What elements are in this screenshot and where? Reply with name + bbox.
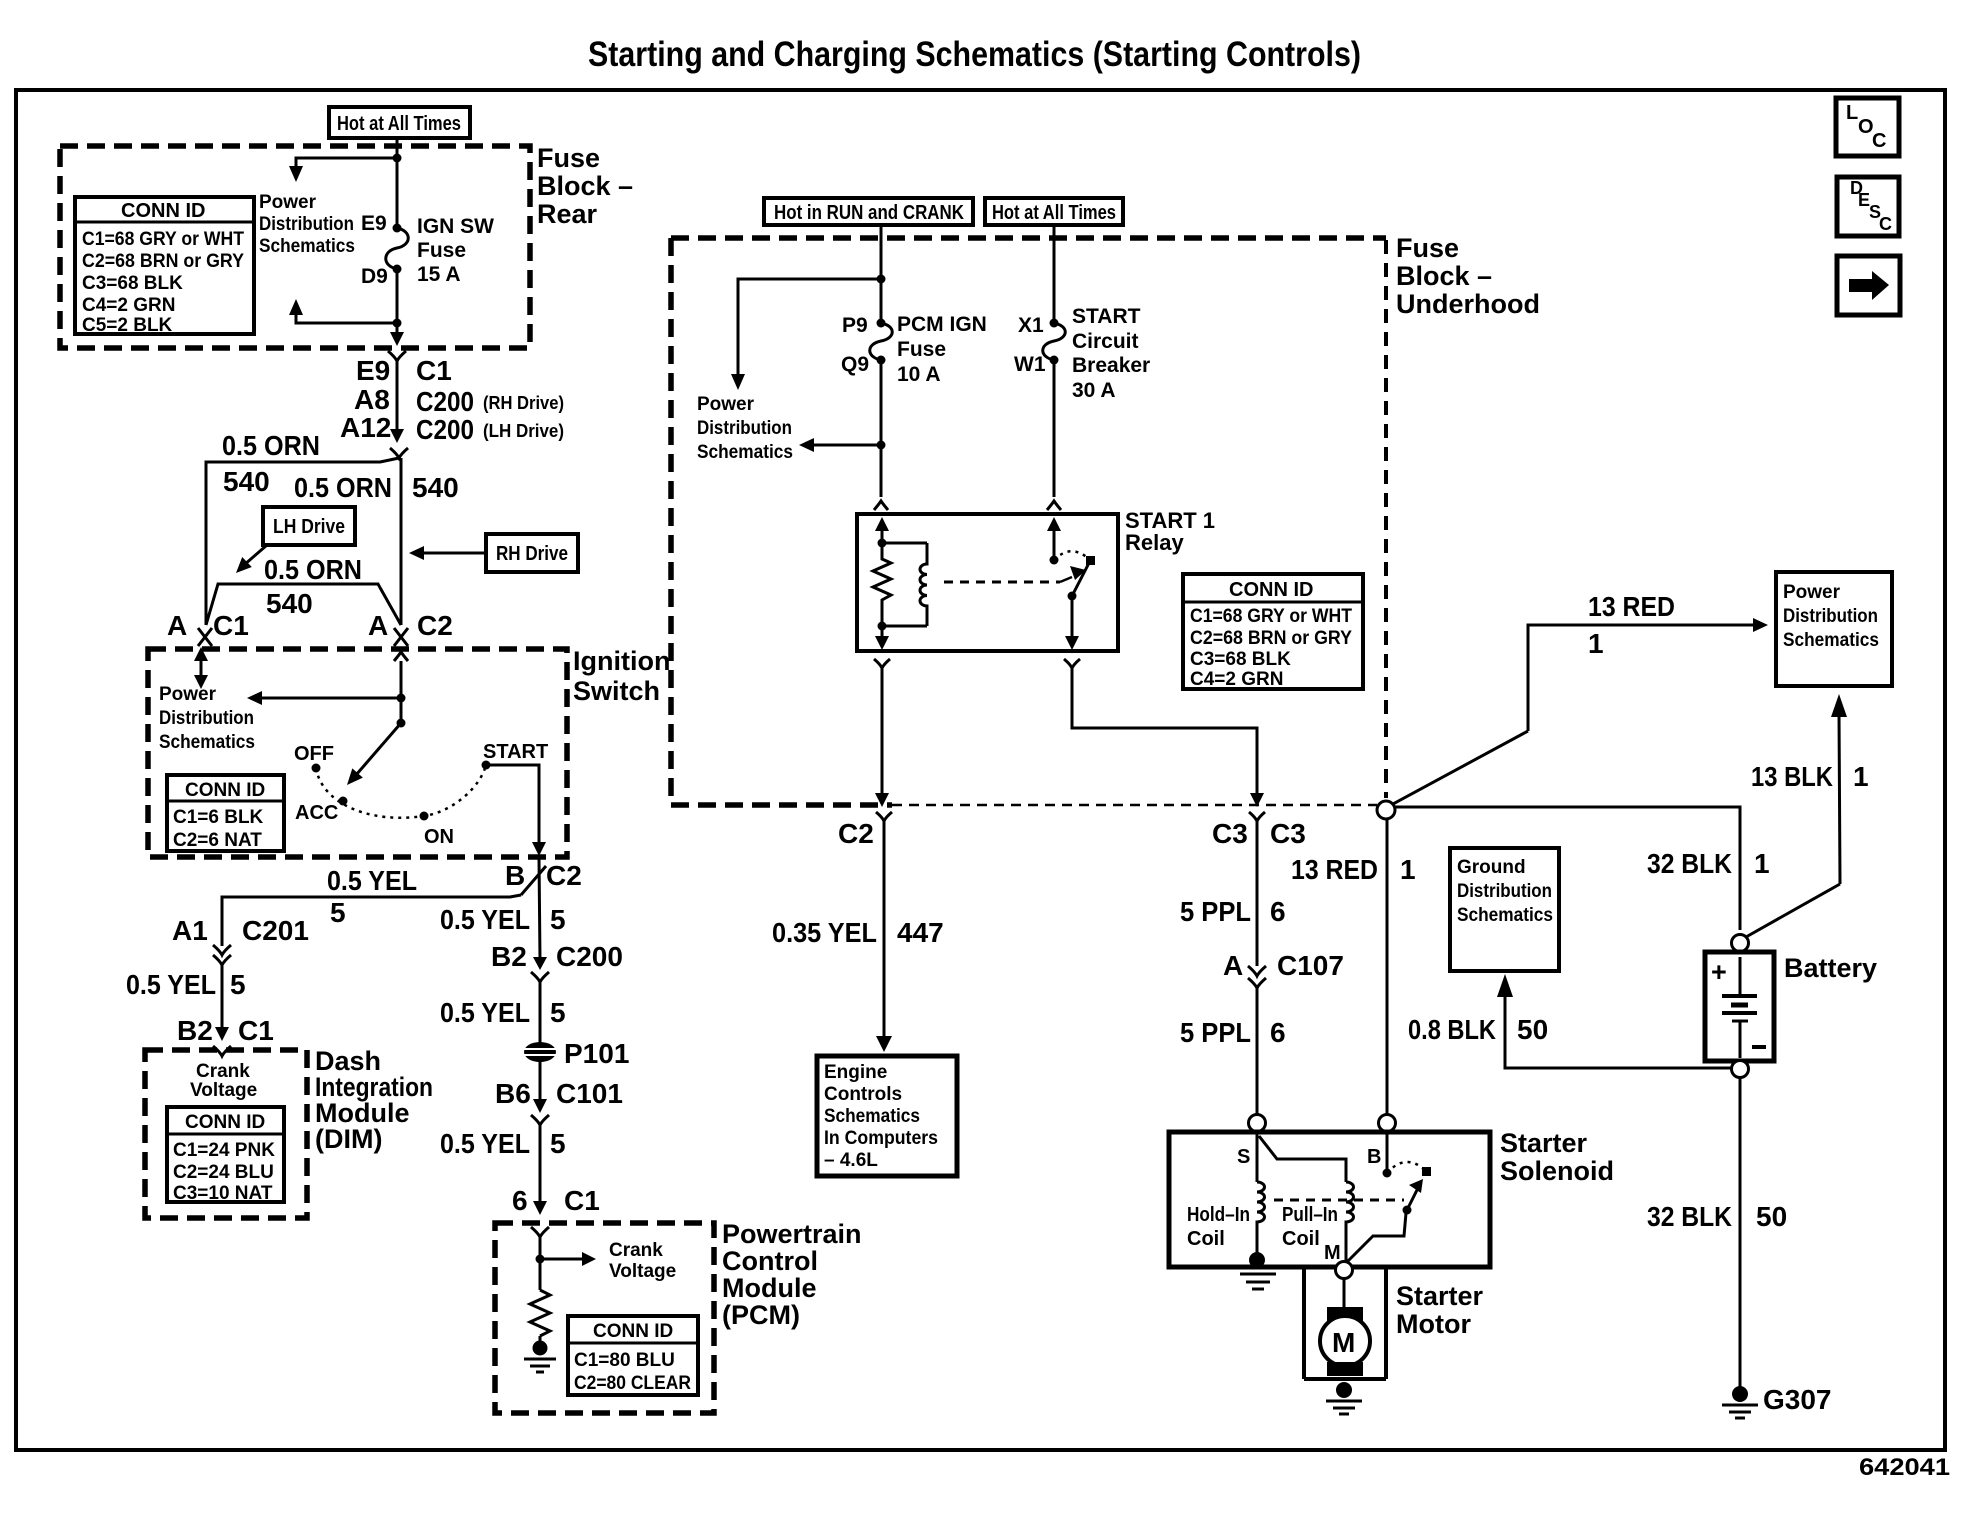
labels 0.5 YEL 5 (to PCM) bbox=[440, 1128, 566, 1159]
wire branch to power distribution (upper arrow) bbox=[296, 158, 397, 168]
label: Hold-In Coil bbox=[1187, 1204, 1250, 1250]
wire to C200 bbox=[396, 361, 399, 430]
wire node to battery positive bbox=[1395, 807, 1740, 930]
solenoid blade and plunger arrow bbox=[1347, 1179, 1423, 1262]
svg-text:C200: C200 bbox=[416, 386, 474, 417]
svg-text:Distribution: Distribution bbox=[1457, 881, 1552, 902]
svg-text:C3: C3 bbox=[1212, 818, 1248, 849]
CONN ID table (DIM) bbox=[167, 1107, 284, 1204]
svg-text:C3=68 BLK: C3=68 BLK bbox=[82, 273, 183, 294]
wire relay output to C3 bbox=[1072, 668, 1264, 807]
wire 13 RED to power distribution box bbox=[1528, 618, 1768, 731]
svg-text:0.5 YEL: 0.5 YEL bbox=[327, 865, 417, 896]
svg-text:C2: C2 bbox=[417, 610, 453, 641]
labels C3 C3 bbox=[1212, 818, 1306, 849]
svg-text:+: + bbox=[1711, 957, 1727, 987]
svg-text:Battery: Battery bbox=[1784, 953, 1877, 983]
wire 13 BLK battery to power distribution box bbox=[1746, 694, 1847, 937]
starter solenoid box bbox=[1169, 1132, 1490, 1267]
label box: RH Drive bbox=[486, 534, 578, 572]
connector chevron C3 bbox=[1249, 812, 1265, 821]
svg-text:Voltage: Voltage bbox=[190, 1080, 257, 1101]
svg-text:E9: E9 bbox=[356, 355, 390, 386]
svg-text:1: 1 bbox=[1853, 761, 1869, 792]
svg-text:Breaker: Breaker bbox=[1072, 354, 1150, 377]
switch position dots arc bbox=[316, 765, 486, 818]
connector labels A8 C200 (RH Drive) bbox=[354, 384, 564, 417]
svg-text:M: M bbox=[1332, 1327, 1355, 1358]
svg-text:CONN ID: CONN ID bbox=[185, 1112, 265, 1133]
wire into switch bbox=[400, 661, 403, 723]
svg-text:Hot at All Times: Hot at All Times bbox=[337, 113, 461, 135]
svg-text:CONN ID: CONN ID bbox=[593, 1321, 673, 1342]
svg-text:S: S bbox=[1237, 1146, 1250, 1168]
svg-text:Schematics: Schematics bbox=[1783, 630, 1879, 651]
hold-in coil bbox=[1257, 1182, 1265, 1258]
svg-text:C201: C201 bbox=[242, 915, 309, 946]
svg-text:447: 447 bbox=[897, 917, 944, 948]
svg-text:C107: C107 bbox=[1277, 950, 1344, 981]
svg-text:Switch: Switch bbox=[573, 676, 660, 706]
wire breaker to relay bbox=[1053, 360, 1056, 497]
svg-text:C1=24 PNK: C1=24 PNK bbox=[173, 1140, 275, 1161]
starter motor frame bbox=[1304, 1267, 1386, 1379]
labels B2 C200 bbox=[491, 941, 623, 972]
connector B C2 (X symbol) bbox=[521, 866, 546, 895]
wire B/C2 down to B2/C200 bbox=[539, 858, 540, 960]
fuse block underhood dashed box bbox=[671, 238, 1386, 805]
starter motor bbox=[1320, 1307, 1370, 1376]
connector chevron below relay (right) bbox=[1064, 659, 1080, 668]
connector B6/C101 chevron bbox=[531, 1115, 549, 1125]
svg-text:6: 6 bbox=[512, 1185, 528, 1216]
label: Starter Motor bbox=[1396, 1281, 1484, 1339]
svg-text:Motor: Motor bbox=[1396, 1309, 1471, 1339]
svg-text:Ignition: Ignition bbox=[573, 646, 670, 676]
relay output pin bottom bbox=[1065, 596, 1079, 650]
wire fuse to relay bbox=[880, 360, 883, 497]
node: hold-in coil ground junction bbox=[1249, 1252, 1265, 1268]
svg-text:Controls: Controls bbox=[824, 1084, 902, 1105]
wire A1/C201 to B2/C1 bbox=[221, 965, 224, 1028]
svg-text:X1: X1 bbox=[1018, 314, 1044, 337]
labels A1 C201 bbox=[172, 915, 309, 946]
svg-text:C3=10 NAT: C3=10 NAT bbox=[173, 1183, 273, 1204]
label: Ignition Switch bbox=[573, 646, 670, 706]
svg-text:1: 1 bbox=[1400, 854, 1416, 885]
labels A C1 bbox=[167, 610, 249, 641]
svg-text:0.5 YEL: 0.5 YEL bbox=[440, 997, 530, 1028]
svg-text:Power: Power bbox=[1783, 582, 1841, 603]
connector chevron above relay (left) bbox=[874, 501, 888, 510]
wire: main vertical to A C2 bbox=[400, 458, 403, 625]
DESC nav box bbox=[1837, 177, 1899, 236]
svg-text:Fuse: Fuse bbox=[417, 239, 466, 262]
svg-text:Schematics: Schematics bbox=[824, 1106, 920, 1127]
svg-text:C5=2 BLK: C5=2 BLK bbox=[82, 315, 173, 336]
svg-text:Power: Power bbox=[259, 192, 317, 213]
fuse block rear dashed box bbox=[60, 146, 530, 348]
node OFF bbox=[312, 764, 321, 773]
wire B/C2 to A1/C201 bbox=[222, 895, 521, 946]
svg-text:Hold–In: Hold–In bbox=[1187, 1204, 1250, 1226]
wire arrow from fuse output to power distribution bbox=[799, 438, 881, 452]
svg-text:15 A: 15 A bbox=[417, 263, 461, 286]
svg-text:540: 540 bbox=[223, 466, 270, 497]
svg-text:C1=6 BLK: C1=6 BLK bbox=[173, 807, 264, 828]
ignition switch dashed box bbox=[148, 649, 567, 857]
DIM dashed box bbox=[145, 1050, 307, 1218]
svg-text:Schematics: Schematics bbox=[159, 732, 255, 753]
relay coil-to-contact dashed link bbox=[944, 566, 1086, 582]
svg-text:Starting and Charging Schemati: Starting and Charging Schematics (Starti… bbox=[588, 35, 1361, 74]
connector A/C107 chevrons bbox=[1248, 966, 1266, 988]
wire C3 to solenoid S bbox=[1256, 821, 1259, 966]
wire S to pull-in coil bbox=[1259, 1136, 1346, 1182]
text: Crank Voltage (PCM) bbox=[609, 1240, 676, 1282]
svg-text:Crank: Crank bbox=[196, 1061, 250, 1082]
svg-text:Underhood: Underhood bbox=[1396, 289, 1540, 319]
relay switch blade bbox=[1072, 561, 1090, 596]
svg-text:Power: Power bbox=[159, 684, 217, 705]
svg-text:Schematics: Schematics bbox=[697, 442, 793, 463]
svg-text:5: 5 bbox=[550, 997, 566, 1028]
svg-text:Starter: Starter bbox=[1500, 1128, 1588, 1158]
svg-text:Block –: Block – bbox=[537, 171, 633, 201]
svg-text:5: 5 bbox=[230, 969, 246, 1000]
svg-text:13 RED: 13 RED bbox=[1291, 854, 1378, 885]
svg-text:32 BLK: 32 BLK bbox=[1647, 848, 1732, 879]
node: switch pivot bbox=[397, 719, 406, 728]
label: START 1 Relay bbox=[1125, 508, 1215, 555]
wire node to 13 RED riser bbox=[1393, 731, 1528, 804]
svg-text:C1: C1 bbox=[564, 1185, 600, 1216]
wire into PCM bbox=[539, 1237, 542, 1290]
labels 5 PPL 6 (upper) bbox=[1180, 896, 1286, 927]
connector chevron below A C2 bbox=[394, 652, 408, 661]
label: Dash Integration Module (DIM) bbox=[315, 1046, 433, 1154]
node: movable contact top bbox=[1086, 556, 1095, 565]
svg-text:C2: C2 bbox=[838, 818, 874, 849]
svg-text:6: 6 bbox=[1270, 1017, 1286, 1048]
svg-text:Distribution: Distribution bbox=[259, 214, 354, 235]
svg-text:C200: C200 bbox=[556, 941, 623, 972]
svg-text:PCM IGN: PCM IGN bbox=[897, 313, 987, 336]
svg-text:5: 5 bbox=[550, 1128, 566, 1159]
connector A1/C201 chevrons bbox=[213, 945, 231, 965]
svg-text:C1: C1 bbox=[416, 355, 452, 386]
svg-text:Circuit: Circuit bbox=[1072, 330, 1139, 353]
svg-text:P9: P9 bbox=[842, 314, 868, 337]
node: junction at feed bbox=[397, 694, 406, 703]
svg-text:C1: C1 bbox=[213, 610, 249, 641]
svg-text:13 RED: 13 RED bbox=[1588, 591, 1675, 622]
svg-text:Block –: Block – bbox=[1396, 261, 1492, 291]
labels 5 PPL 6 (lower) bbox=[1180, 1017, 1286, 1048]
svg-text:A: A bbox=[368, 610, 388, 641]
arrow nav box bbox=[1837, 256, 1900, 315]
svg-text:C1=68 GRY or WHT: C1=68 GRY or WHT bbox=[1190, 606, 1352, 627]
node: splice ring at fuse block corner bbox=[1377, 801, 1395, 819]
fuse PCM IGN 10A symbol bbox=[870, 319, 893, 365]
node: coil top junction bbox=[878, 539, 887, 548]
relay coil bbox=[882, 543, 927, 626]
node: junction dot lower bbox=[393, 319, 402, 328]
svg-text:B6: B6 bbox=[495, 1078, 531, 1109]
relay contact pin top bbox=[1047, 517, 1061, 560]
svg-text:Voltage: Voltage bbox=[609, 1261, 676, 1282]
terminal M ring bbox=[1336, 1262, 1353, 1279]
connector chevron into PCM bbox=[531, 1227, 549, 1237]
arrow to Crank Voltage bbox=[540, 1252, 596, 1266]
svg-text:– 4.6L: – 4.6L bbox=[824, 1150, 878, 1171]
svg-text:C2=6 NAT: C2=6 NAT bbox=[173, 830, 262, 851]
labels 13 RED 1 (to B) bbox=[1291, 854, 1416, 885]
wire node to B terminal bbox=[1386, 819, 1389, 1114]
wire C101 to PCM bbox=[539, 1125, 542, 1202]
label: START Circuit Breaker 30 A bbox=[1072, 305, 1150, 402]
wire C2 to engine controls bbox=[876, 821, 892, 1052]
wire from Hot at All Times into fuse bbox=[396, 138, 399, 228]
svg-text:0.5 ORN: 0.5 ORN bbox=[294, 472, 392, 503]
fuse IGN SW 15A symbol bbox=[386, 224, 409, 274]
svg-text:Crank: Crank bbox=[609, 1240, 663, 1261]
labels 0.35 YEL 447 bbox=[772, 917, 944, 948]
svg-text:0.5 ORN: 0.5 ORN bbox=[264, 554, 362, 585]
wire from START out of switch bbox=[486, 765, 546, 856]
svg-text:Module: Module bbox=[722, 1273, 817, 1303]
wire arrow to power distribution schematics bbox=[247, 691, 401, 705]
svg-text:START: START bbox=[1072, 305, 1141, 328]
svg-text:B: B bbox=[505, 860, 525, 891]
label box: Hot in RUN and CRANK bbox=[764, 198, 973, 225]
wire: 0.5 ORN 540 LH-drive crossover bbox=[206, 584, 401, 625]
node: blade pivot bbox=[1068, 592, 1077, 601]
wire leaving fuse block with arrow bbox=[390, 332, 404, 346]
node: movable contact bbox=[1422, 1167, 1431, 1176]
labels 0.5 YEL 5 (upper right run) bbox=[440, 904, 566, 935]
wire to P101 bbox=[539, 982, 542, 1043]
svg-text:5: 5 bbox=[550, 904, 566, 935]
svg-text:Solenoid: Solenoid bbox=[1500, 1156, 1614, 1186]
ground (starter motor) bbox=[1326, 1382, 1362, 1414]
wire: 0.5 ORN 540 to A C1 bbox=[206, 458, 399, 625]
svg-text:A: A bbox=[1223, 950, 1243, 981]
svg-text:(RH Drive): (RH Drive) bbox=[483, 393, 564, 413]
svg-text:C200: C200 bbox=[416, 414, 474, 445]
wire battery negative to G307 bbox=[1739, 1078, 1742, 1388]
wire M terminal to motor bbox=[1343, 1279, 1346, 1308]
svg-text:C: C bbox=[1879, 214, 1892, 234]
labels A C2 bbox=[368, 610, 453, 641]
svg-text:C1=80 BLU: C1=80 BLU bbox=[574, 1350, 675, 1371]
svg-text:L: L bbox=[1846, 102, 1858, 124]
pull-in coil bbox=[1346, 1182, 1354, 1262]
terminal S ring bbox=[1249, 1115, 1266, 1132]
text: Power Distribution Schematics bbox=[259, 192, 355, 257]
svg-text:5: 5 bbox=[330, 897, 346, 928]
svg-text:Q9: Q9 bbox=[841, 353, 869, 376]
svg-text:D9: D9 bbox=[361, 265, 388, 288]
svg-text:Fuse: Fuse bbox=[1396, 233, 1459, 263]
svg-text:C: C bbox=[1872, 130, 1886, 152]
svg-text:B2: B2 bbox=[177, 1015, 213, 1046]
svg-text:1: 1 bbox=[1754, 848, 1770, 879]
text: Crank Voltage bbox=[190, 1061, 257, 1101]
svg-text:0.35 YEL: 0.35 YEL bbox=[772, 917, 877, 948]
svg-text:C101: C101 bbox=[556, 1078, 623, 1109]
svg-text:ON: ON bbox=[424, 826, 454, 848]
svg-text:Hot at All Times: Hot at All Times bbox=[992, 202, 1116, 224]
relay contact dotted arc bbox=[1054, 551, 1091, 561]
arrow from LH Drive box bbox=[236, 545, 267, 573]
label: Starter Solenoid bbox=[1500, 1128, 1614, 1186]
connector B2/C1 chevron bbox=[213, 1046, 231, 1056]
svg-text:0.5 ORN: 0.5 ORN bbox=[222, 430, 320, 461]
svg-text:Schematics: Schematics bbox=[259, 236, 355, 257]
svg-text:0.5 YEL: 0.5 YEL bbox=[126, 969, 216, 1000]
label box: Hot at All Times bbox=[329, 107, 470, 138]
switch wiper blade bbox=[347, 723, 401, 785]
svg-text:B: B bbox=[1367, 1146, 1381, 1168]
label 0.5 ORN 540 (on main vertical) bbox=[294, 472, 459, 503]
svg-text:Starter: Starter bbox=[1396, 1281, 1484, 1311]
svg-text:START: START bbox=[483, 741, 548, 763]
svg-text:A1: A1 bbox=[172, 915, 208, 946]
relay coil pin top bbox=[875, 517, 889, 543]
svg-text:30 A: 30 A bbox=[1072, 379, 1116, 402]
svg-text:Fuse: Fuse bbox=[897, 338, 946, 361]
CONN ID table (ignition switch) bbox=[167, 775, 284, 851]
node: coil bottom junction bbox=[878, 622, 887, 631]
svg-text:C2=24 BLU: C2=24 BLU bbox=[173, 1162, 274, 1183]
labels 6 C1 bbox=[512, 1185, 600, 1216]
svg-text:5 PPL: 5 PPL bbox=[1180, 1017, 1251, 1048]
svg-text:1: 1 bbox=[1588, 628, 1604, 659]
wire from Hot in RUN and CRANK to fuse bbox=[880, 225, 883, 323]
svg-text:A8: A8 bbox=[354, 384, 390, 415]
terminal B ring bbox=[1379, 1115, 1396, 1132]
wire P101 to B6/C101 bbox=[539, 1060, 542, 1100]
svg-text:Distribution: Distribution bbox=[159, 708, 254, 729]
svg-text:Power: Power bbox=[697, 394, 755, 415]
svg-text:Hot in RUN and CRANK: Hot in RUN and CRANK bbox=[774, 202, 964, 224]
svg-text:M: M bbox=[1324, 1242, 1341, 1264]
svg-text:Ground: Ground bbox=[1457, 857, 1526, 878]
svg-text:C3=68 BLK: C3=68 BLK bbox=[1190, 649, 1291, 670]
label: Powertrain Control Module (PCM) bbox=[722, 1219, 862, 1330]
svg-text:13 BLK: 13 BLK bbox=[1751, 761, 1833, 792]
node START bbox=[482, 761, 491, 770]
svg-text:CONN ID: CONN ID bbox=[1229, 579, 1313, 601]
dashed link pull-in coil to switch bbox=[1274, 1199, 1404, 1202]
svg-text:Control: Control bbox=[722, 1246, 818, 1276]
labels B6 C101 bbox=[495, 1078, 623, 1109]
svg-text:5 PPL: 5 PPL bbox=[1180, 896, 1251, 927]
svg-text:W1: W1 bbox=[1014, 353, 1046, 376]
svg-text:10 A: 10 A bbox=[897, 363, 941, 386]
svg-text:540: 540 bbox=[412, 472, 459, 503]
svg-text:C2=68 BRN or GRY: C2=68 BRN or GRY bbox=[82, 251, 244, 272]
svg-text:Relay: Relay bbox=[1125, 530, 1184, 555]
relay START 1 box bbox=[857, 514, 1118, 651]
CONN ID table (fuse block rear) bbox=[75, 197, 254, 336]
svg-text:RH Drive: RH Drive bbox=[496, 543, 568, 565]
svg-text:0.5 YEL: 0.5 YEL bbox=[440, 904, 530, 935]
svg-text:C1: C1 bbox=[238, 1015, 274, 1046]
svg-text:0.8 BLK: 0.8 BLK bbox=[1408, 1014, 1496, 1045]
connector A C2 (X symbol) bbox=[394, 628, 408, 646]
wire from Hot at All Times to breaker bbox=[1053, 225, 1056, 323]
svg-text:C1=68 GRY or WHT: C1=68 GRY or WHT bbox=[82, 229, 244, 250]
svg-text:ACC: ACC bbox=[295, 802, 338, 824]
double arrow to power distribution bbox=[194, 647, 208, 689]
text: Power Distribution Schematics (underhood) bbox=[697, 394, 793, 463]
Power Distribution Schematics box bbox=[1776, 572, 1892, 686]
svg-text:32 BLK: 32 BLK bbox=[1647, 1201, 1732, 1232]
svg-text:P101: P101 bbox=[564, 1038, 629, 1069]
label box: Hot at All Times (underhood) bbox=[985, 198, 1123, 225]
svg-text:(PCM): (PCM) bbox=[722, 1300, 800, 1330]
wire 0.8 BLK battery negative to ground distribution bbox=[1497, 974, 1731, 1068]
connector chevron above relay (right) bbox=[1047, 501, 1061, 510]
splice P101 bbox=[524, 1042, 556, 1062]
node: crank voltage tap bbox=[536, 1255, 545, 1264]
svg-text:Pull–In: Pull–In bbox=[1282, 1204, 1338, 1226]
svg-text:C4=2 GRN: C4=2 GRN bbox=[82, 295, 175, 316]
Ground Distribution Schematics box bbox=[1450, 848, 1559, 971]
svg-text:C2=68 BRN or GRY: C2=68 BRN or GRY bbox=[1190, 628, 1352, 649]
circuit breaker START 30A symbol bbox=[1043, 319, 1066, 365]
svg-text:Fuse: Fuse bbox=[537, 143, 600, 173]
text: Power Distribution Schematics (ignition) bbox=[159, 684, 255, 753]
wire branch to power distribution arrow bbox=[731, 279, 881, 390]
solenoid contact dotted arc bbox=[1387, 1162, 1426, 1173]
node ON bbox=[420, 812, 429, 821]
svg-text:Rear: Rear bbox=[537, 199, 598, 229]
labels B C2 bbox=[505, 860, 582, 891]
ground (PCM) bbox=[524, 1336, 556, 1372]
connector B2/C200 bbox=[531, 957, 549, 982]
svg-text:0.5 YEL: 0.5 YEL bbox=[440, 1128, 530, 1159]
PCM dashed box bbox=[495, 1223, 714, 1413]
wire relay to C2 bbox=[875, 668, 889, 807]
label: Pull-In Coil bbox=[1282, 1204, 1338, 1250]
wire fuse bottom run bbox=[396, 269, 399, 340]
svg-text:6: 6 bbox=[1270, 896, 1286, 927]
svg-text:642041: 642041 bbox=[1859, 1454, 1950, 1481]
svg-text:G307: G307 bbox=[1763, 1384, 1832, 1415]
connector labels E9 C1 bbox=[356, 355, 452, 386]
svg-text:Coil: Coil bbox=[1282, 1228, 1320, 1250]
ground G307 bbox=[1722, 1386, 1758, 1418]
arrow from RH Drive box bbox=[409, 546, 486, 560]
svg-text:CONN ID: CONN ID bbox=[121, 200, 205, 222]
svg-text:Coil: Coil bbox=[1187, 1228, 1225, 1250]
svg-text:E9: E9 bbox=[361, 212, 387, 235]
node: B contact bbox=[1383, 1169, 1392, 1178]
svg-text:(LH Drive): (LH Drive) bbox=[483, 421, 564, 441]
battery bbox=[1705, 935, 1774, 1078]
svg-text:In Computers: In Computers bbox=[824, 1128, 938, 1149]
svg-text:B2: B2 bbox=[491, 941, 527, 972]
svg-text:540: 540 bbox=[266, 588, 313, 619]
svg-text:Schematics: Schematics bbox=[1457, 905, 1553, 926]
label box: LH Drive bbox=[263, 507, 355, 545]
node ACC bbox=[339, 797, 348, 806]
relay resistor bbox=[873, 543, 891, 626]
svg-text:LH Drive: LH Drive bbox=[273, 516, 345, 538]
